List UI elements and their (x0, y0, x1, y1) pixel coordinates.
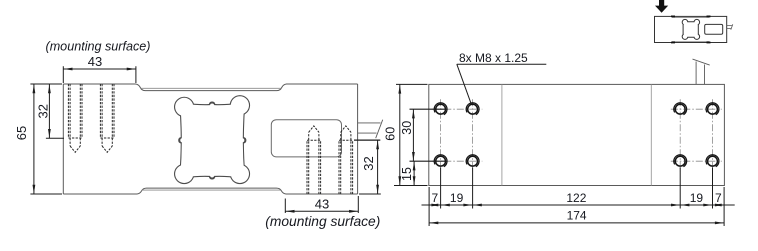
threaded hole B2 (bottom-right, hidden) (339, 126, 353, 194)
tapped holes, right view (8x M8) (434, 103, 719, 167)
central flexure cutout (174, 95, 250, 184)
dimension 30 (hole row spacing) (400, 109, 447, 161)
svg-text:43: 43 (88, 54, 102, 69)
svg-text:7: 7 (432, 191, 439, 205)
right view pad step line (left) (501, 84, 503, 185)
svg-text:7: 7 (715, 191, 722, 205)
centerlines, left hole group (432, 99, 483, 171)
icon flexure cutout (682, 19, 700, 40)
threaded hole T2 (top-left, hidden) (100, 84, 114, 152)
svg-text:122: 122 (566, 191, 586, 205)
dimension 174 (overall length) (429, 208, 724, 224)
svg-text:65: 65 (14, 126, 29, 140)
gauge pocket (rounded rectangle) (271, 120, 341, 157)
svg-text:19: 19 (690, 191, 704, 205)
icon relief marks (671, 16, 711, 42)
dimension 43 (bottom-right, mounting surface length) (285, 196, 358, 213)
dimension 15 (bottom row to edge) (400, 161, 416, 185)
threaded hole B1 (bottom-right, hidden) (307, 126, 321, 194)
load arrow (655, 0, 668, 13)
right view pad step line (right) (650, 84, 652, 185)
callout 8x M8 x 1.25 with leader (457, 51, 547, 104)
icon pocket (705, 24, 723, 34)
dimension 32 (thread depth, lower-right) (354, 140, 381, 194)
cable exit (left view) (358, 120, 383, 139)
icon body (655, 16, 727, 42)
dimension 65 (overall height, left) (14, 84, 62, 194)
left view bottom recess second line (142, 189, 281, 191)
centerlines, right hole group (671, 99, 722, 171)
dimension 60 (overall height, right view) (384, 84, 428, 185)
svg-text:60: 60 (384, 127, 398, 141)
svg-text:32: 32 (361, 156, 376, 170)
icon cable stub (727, 24, 733, 30)
dimension 43 (top, mounting surface length) (63, 54, 136, 83)
svg-text:15: 15 (400, 167, 414, 181)
bottom dimension row: 7 / 19 / 122 / 19 / 7 (422, 168, 735, 227)
loading-direction icon (top right) (655, 0, 733, 43)
svg-text:(mounting surface): (mounting surface) (46, 40, 151, 54)
svg-text:174: 174 (567, 208, 587, 222)
threaded hole T1 (top-left, hidden) (68, 84, 82, 152)
left view top recess second line (141, 87, 282, 89)
left view body outline (63, 84, 357, 194)
svg-text:30: 30 (400, 121, 414, 135)
svg-text:(mounting surface): (mounting surface) (265, 214, 380, 229)
svg-text:19: 19 (450, 191, 464, 205)
svg-text:8x M8 x 1.25: 8x M8 x 1.25 (459, 51, 528, 65)
svg-text:43: 43 (315, 197, 329, 212)
right view body outline (429, 84, 725, 185)
cable exit (right view, pointing up) (693, 59, 710, 84)
svg-text:32: 32 (36, 104, 51, 118)
dimension 32 (thread depth, upper-left) (36, 84, 64, 138)
